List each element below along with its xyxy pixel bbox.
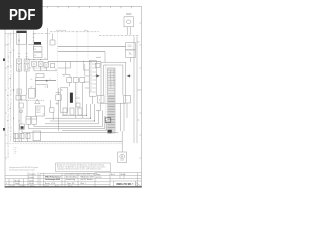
wire tick marks [13,50,28,90]
wire corner x70.5 [58,62,71,69]
wire branch vertical [18,31,20,60]
svg-text:13: 13 [44,58,46,60]
svg-text:Y1: Y1 [49,79,51,81]
bus wire 7 [62,120,106,131]
wire under dark bar [28,44,42,46]
valve arrow right [127,74,130,77]
notes box center [56,163,111,172]
ladder contacts column [89,60,96,96]
contact pair b2 [32,61,37,66]
terminal dark bar X5 [70,93,73,103]
wire x66 vertical top [65,62,67,74]
terminal boxes bottom row [14,133,18,139]
wire stub left of power unit [96,56,101,58]
svg-text:Ers.d.: Ers.d. [121,174,126,176]
frame edge marker left upper [3,58,5,61]
wire long bus L line y46.5 [58,46,126,48]
wire below F1 [18,71,20,142]
comp small x50 [50,108,54,112]
wire branch vertical 2 [26,31,28,60]
svg-text:3 gn: 3 gn [14,151,17,153]
switch S2 box [34,53,43,58]
far right double vertical A [133,37,135,144]
contact strip small boxes above bus [63,108,67,115]
svg-text:71: 71 [90,86,92,88]
terminal boxes pair [16,95,21,100]
wire bus corner down x105 [104,52,106,63]
bus wire 6 [62,116,105,129]
wire bottom border [5,186,142,188]
wire line y61.5 to big box [48,61,101,63]
contact block K6 [44,63,49,68]
svg-text:K3: K3 [31,79,33,81]
field cells right [96,174,126,179]
fuse F1 body [17,59,22,71]
wire h y84.6 [36,84,48,86]
warning triangle [35,99,40,103]
frame edge marker left lower [3,128,5,131]
aux contact left of power unit [96,63,101,67]
wire hline y59.5 [28,59,48,61]
wire x47.5 vertical [47,28,49,60]
svg-text:Gepr. KS: Gepr. KS [67,183,75,185]
wire ladder feeders [84,69,90,71]
box tall left-center [29,89,36,99]
svg-text:a: a [6,183,7,185]
svg-text:HKW-D RV Spruehwasser: HKW-D RV Spruehwasser [45,176,61,179]
svg-text:S4: S4 [45,87,47,89]
svg-text:NR-02: NR-02 [36,112,41,114]
svg-text:S1: S1 [34,49,36,51]
switch S1 box [34,47,43,52]
wire zone divider dashed x57.5 [57,31,59,94]
relay coil box K3 [36,73,44,77]
svg-text:12.04.99: 12.04.99 [29,174,36,176]
bus wire 3 [50,104,94,121]
revision table texts [6,174,86,187]
wire aux right down [126,103,128,118]
tiny list text [14,147,18,155]
frame zone ticks right [139,23,141,158]
svg-text:S2: S2 [34,55,36,57]
wire right pair verticals [119,103,121,131]
pin label texts scatter [43,58,66,118]
company cell text [81,175,94,181]
column device box [60,88,68,112]
far right double vertical B [136,37,138,144]
wire H1 down [20,113,22,124]
wire below ladder [92,96,94,104]
valve arrow left [96,74,99,77]
relay K1 dark top bar [17,31,27,33]
motor M3 box [118,152,127,163]
text column dark flecks [7,44,10,121]
wire dashes horizontal dashed control line [26,100,45,102]
contact row box 3 [80,78,85,83]
wire below F2 [26,71,28,95]
aux box lower-left of unit [97,95,104,103]
wire main left vertical L1 [13,31,15,142]
svg-text:Urspr.: Urspr. [96,174,101,176]
bus wire 1 [62,104,86,115]
svg-text:83: 83 [90,90,92,92]
bus wire 8 [62,132,118,135]
svg-text:61: 61 [90,82,92,84]
svg-text:Bearb. 12.04: Bearb. 12.04 [45,183,55,185]
wire top border [5,5,141,7]
wire drops from contact row [68,83,70,87]
bus wire 5 [62,110,102,126]
aux box lower-right of unit [124,95,131,103]
svg-text:D-67227 Franken: D-67227 Franken [81,178,93,181]
wire x47.5 lower [47,85,49,88]
power unit big box outer [101,62,126,103]
SCHEMATIC LEFT SECTION [7,28,62,158]
coil M1a [19,103,23,108]
svg-text:Niveau: Niveau [36,108,41,110]
wire K3 vertical [35,78,37,97]
frame zone ticks left [5,45,7,158]
PDF badge [0,0,46,33]
svg-text:Datum: Datum [20,184,26,187]
controller box A2 [36,106,45,116]
frame zone ticks top [48,6,132,8]
subtitle cell text [66,175,77,181]
contact b1 [17,89,21,94]
instrument P1 box [124,17,133,27]
SCHEMATIC CENTER SECTION [34,29,140,118]
svg-text:K5: K5 [63,76,65,78]
terminal strip dark bar [34,42,41,45]
svg-text:PDF: PDF [9,7,35,24]
title cell text [45,176,61,182]
wire left border [4,6,6,186]
svg-text:Ers.d: Ers.d [68,185,72,187]
wire hline y70.8 going right [34,70,57,72]
svg-text:Ers.f.: Ers.f. [111,174,116,176]
wire K2 down to bus [29,124,63,128]
bus dark corner mark [105,118,111,123]
svg-text:Steuerleitungen 0,75qmm Haupt: Steuerleitungen 0,75qmm Hauptstrom 2,5qm… [9,168,35,171]
wire dashed h line y67.8 [28,67,46,69]
bus wire 2 [45,104,90,118]
wire dash-dot stub to left border [6,33,17,35]
svg-text:X2: X2 [43,114,45,116]
SCHEMATIC RIGHT SECTION [95,13,140,162]
wire b2 drops [33,66,35,70]
svg-text:Zust.: Zust. [10,184,14,187]
comp small left of column [56,102,59,105]
relay K1 box top-left [17,31,27,44]
wire zone divider dashed x88 [87,31,89,60]
svg-text:43: 43 [90,74,92,76]
power unit inner sides [103,65,105,95]
svg-text:31: 31 [90,70,92,72]
wire left stub y92.6 [56,92,61,94]
svg-text:Bl. 1: Bl. 1 [132,184,136,186]
arrow on line [46,80,48,82]
svg-text:53: 53 [90,78,92,80]
wire from M2 to bus [22,129,62,132]
svg-text:Schaltplan Nr. 4712-001 Blatt: Schaltplan Nr. 4712-001 Blatt 1 von 1 [66,172,97,175]
wire y74.6 short [62,75,70,78]
wire long bottom line [14,141,123,143]
svg-text:und gegen Wiedereinschalten si: und gegen Wiedereinschalten sichern. VDE… [57,167,102,170]
wire vertical x27 mid [26,100,28,116]
lamp H1 [20,110,23,113]
aux contact K7 [51,64,55,68]
wire aux left down [96,103,101,110]
node legend text column [7,33,12,158]
wire main h line y80.7 [36,80,56,82]
svg-text:M: M [121,156,123,159]
wire bottom verticals drop [15,133,17,142]
wire zone divider dashed x77 [76,31,78,110]
wire dotted PE line [6,143,123,145]
title block mid top line [40,172,95,174]
svg-text:KSB Antriebst. GmbH: KSB Antriebst. GmbH [81,175,94,178]
svg-text:Steuereinheit SE-400 V2: Steuereinheit SE-400 V2 [109,70,112,89]
contact row box 1 [67,78,72,83]
title block vertical dividers [8,179,10,187]
title block row line 3 [5,181,110,183]
svg-text:Ers.f: Ers.f [55,185,59,187]
TITLE BLOCK [5,163,141,187]
title block row line 1 [5,175,141,177]
svg-text:Stromlaufplan: Stromlaufplan [66,175,77,178]
wire dash-dot boundary line [34,32,50,34]
motor M2 small box [20,124,25,129]
title block row line 2 [5,178,141,180]
contact row box 2 [73,78,78,83]
svg-text:K2: K2 [55,69,57,71]
title block corner hatch [136,182,142,186]
svg-text:4712-0: 4712-0 [96,177,102,179]
wire x33 vertical top [33,31,35,51]
SHEET-FRAME [5,6,141,186]
svg-text:Steuerung: Steuerung [66,178,75,181]
fuse F2 body [24,59,29,71]
svg-text:21: 21 [90,66,92,68]
title block row line 4 [5,183,110,185]
svg-text:Verteilerwagen RW-4: Verteilerwagen RW-4 [45,178,61,181]
contactor K2 pair left [26,116,31,124]
bus junction dots [86,115,95,122]
wire motor feeder [121,131,123,152]
wire K6 drop [45,67,47,71]
heater dark cap [108,130,112,133]
SCHEMATIC BUS SECTION [6,104,123,155]
svg-text:13: 13 [90,62,92,64]
instrument P1 label [126,13,131,15]
junction dots left column [13,59,41,122]
instrument P1 circle [127,20,131,24]
label texts mid-left [31,79,51,89]
heater element tall hatched bar [108,68,115,133]
bus wire 4 [45,110,98,123]
svg-text:Urspr: Urspr [45,185,50,187]
wire long bus N line y51.5 [58,51,105,53]
relay K4 box with wire [56,95,61,100]
device boxes on far right [126,43,136,50]
junction ticks x33 [33,34,35,41]
wire stubs to border [137,42,140,120]
title block right top line [95,172,141,174]
svg-text:Name: Name [30,185,35,187]
wire right border [140,6,142,186]
notes text in notes box [57,163,105,170]
left notes text [9,166,38,171]
svg-text:82231-731 S01: 82231-731 S01 [117,182,132,186]
svg-text:Datum: Datum [29,176,35,179]
wire instrument leads [126,27,128,35]
svg-text:Blatt 1: Blatt 1 [81,182,86,185]
